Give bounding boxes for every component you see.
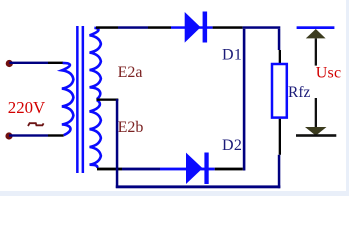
diode D2 triangle xyxy=(186,153,203,184)
Usc down arrow head xyxy=(305,127,327,136)
resistor Rfz body xyxy=(272,64,287,118)
Usc down arrow stem xyxy=(315,98,317,127)
svg-text:Rfz: Rfz xyxy=(288,84,311,101)
vertical wire: cathode node D1 to D2 xyxy=(243,29,246,171)
transformer core line 2 xyxy=(82,26,85,173)
svg-text:E2a: E2a xyxy=(118,64,143,81)
diode D1 cathode bar xyxy=(203,12,208,43)
bottom wire: D2 anode from secondary bottom xyxy=(97,168,122,171)
diode D1 triangle xyxy=(185,12,201,43)
transformer primary winding xyxy=(62,63,74,135)
terminal dot bottom-left xyxy=(5,132,12,139)
wire: D2 cathode to riser xyxy=(215,168,243,171)
transformer secondary E2a winding xyxy=(90,28,101,99)
Usc bottom reference bar xyxy=(296,134,336,137)
svg-text:220V: 220V xyxy=(8,98,45,117)
wire: Rfz bottom lead xyxy=(279,119,281,155)
center tap wire xyxy=(96,99,118,101)
transformer secondary E2b winding xyxy=(90,100,101,168)
AC tilde symbol xyxy=(28,123,44,126)
svg-text:Usc: Usc xyxy=(316,65,341,82)
svg-text:D1: D1 xyxy=(222,47,242,64)
diode D2 cathode bar xyxy=(204,153,208,185)
wire: Rfz top lead (corner down) xyxy=(278,29,281,50)
terminal dot top-left xyxy=(6,60,13,67)
page edge strip bottom xyxy=(0,191,349,196)
page edge strip right xyxy=(346,0,349,196)
Usc top reference bar xyxy=(297,26,335,29)
wire: top-left terminal to primary xyxy=(9,62,48,64)
Usc up arrow stem xyxy=(315,38,317,65)
top wire: secondary top to D1 anode xyxy=(96,26,118,29)
svg-text:D2: D2 xyxy=(222,137,242,154)
Usc up arrow head xyxy=(306,29,326,38)
wire: bottom-left terminal to primary xyxy=(9,134,48,136)
center tap vertical drop xyxy=(116,99,119,188)
transformer core line 1 xyxy=(76,26,79,173)
top wire: D1 cathode to right corner xyxy=(213,26,243,29)
bottom return wire xyxy=(116,185,280,188)
svg-text:E2b: E2b xyxy=(118,119,144,136)
